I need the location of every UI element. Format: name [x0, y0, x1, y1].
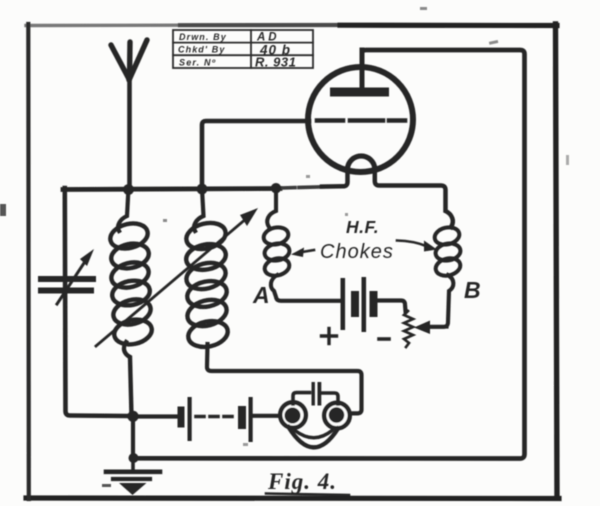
svg-text:Chkd' By: Chkd' By [178, 45, 225, 55]
node grid junction [197, 184, 208, 195]
label plus [322, 329, 337, 344]
wire ground stem [131, 416, 135, 458]
wire bus faint segment to filament [280, 187, 324, 188]
filament right leg [375, 168, 453, 227]
filament left leg [322, 168, 348, 187]
svg-text:A: A [252, 282, 270, 308]
phones P1 [280, 402, 350, 447]
arrow to choke A [291, 248, 314, 258]
wire L2 bottom to phones [207, 344, 362, 413]
svg-text:B: B [464, 277, 481, 303]
coupling arrow through coils [96, 208, 258, 346]
ground [106, 458, 160, 495]
wire capacitor branch [65, 188, 131, 416]
battery B1 [341, 277, 378, 332]
scan specks (decorative) [102, 7, 569, 487]
wire antenna lead [127, 78, 132, 189]
arrow to rheostat [414, 321, 447, 335]
wire junction to battery A [133, 414, 177, 418]
wire dashed battery link [196, 415, 237, 419]
rf choke A [262, 186, 339, 301]
wire battery to rheostat [377, 301, 406, 312]
arrow to choke B [397, 241, 437, 252]
plate lead inside [360, 50, 365, 89]
filament loop [348, 156, 375, 169]
caption Fig. 4. [266, 469, 349, 495]
label minus [379, 337, 389, 341]
svg-text:R. 931: R. 931 [255, 55, 296, 70]
title block [173, 30, 313, 70]
wire plate lead and return [136, 50, 525, 459]
battery A1 filament battery [178, 397, 253, 442]
svg-text:H.F.: H.F. [346, 217, 379, 237]
svg-text:Drwn. By: Drwn. By [179, 32, 227, 42]
rf choke B [429, 225, 462, 327]
svg-text:Fig. 4.: Fig. 4. [267, 469, 337, 494]
rheostat R1 [404, 311, 413, 347]
node ground lower junction [129, 453, 139, 463]
node ground top junction [127, 411, 138, 422]
inductor L1 aerial coil [108, 188, 154, 416]
wire tuning bus [63, 189, 280, 190]
svg-text:Chokes: Chokes [320, 241, 394, 263]
wire battery to phones [253, 414, 280, 418]
capacitor C2 phone bypass [293, 382, 338, 406]
text H.F. Chokes [320, 217, 394, 263]
antenna [111, 40, 147, 80]
svg-text:Ser. Nº: Ser. Nº [179, 58, 216, 68]
grid dashes [317, 118, 405, 123]
wire grid lead [202, 121, 309, 189]
variable capacitor C1 [41, 249, 94, 304]
node choke A junction [271, 183, 281, 193]
plate bar [330, 88, 389, 97]
edge blob [0, 204, 6, 216]
tube V1 [308, 50, 453, 227]
node antenna junction [123, 184, 134, 195]
inductor L2 secondary coil [183, 189, 230, 350]
